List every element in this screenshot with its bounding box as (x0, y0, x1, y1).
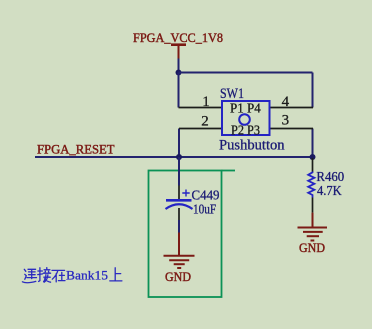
wire FPGA_RESET horizontal (35, 156, 313, 158)
annotation chinese 上 (110, 268, 122, 281)
svg-text:3: 3 (282, 112, 290, 128)
wire pin3 down to reset net (312, 129, 314, 158)
svg-text:1: 1 (202, 94, 210, 110)
svg-text:4: 4 (282, 94, 290, 110)
svg-text:2: 2 (201, 114, 209, 130)
wire pin2 down to reset net (178, 129, 180, 158)
svg-text:R460: R460 (316, 169, 344, 184)
svg-text:FPGA_VCC_1V8: FPGA_VCC_1V8 (133, 30, 223, 45)
wire power stem to junction (178, 59, 180, 73)
switch SW1 body (222, 101, 270, 135)
switch SW1 pins (179, 108, 314, 129)
annotation chinese 在 (52, 270, 65, 282)
wire left vertical to pin1 (178, 73, 180, 108)
annotation chinese 连 (22, 269, 36, 282)
svg-text:GND: GND (165, 269, 191, 284)
ground port left (164, 233, 195, 269)
annotation chinese 接 (38, 268, 51, 283)
svg-text:GND: GND (299, 240, 325, 255)
junction node C (310, 154, 316, 160)
wire reset net down to capacitor (178, 157, 180, 186)
svg-text:SW1: SW1 (220, 86, 244, 102)
junction node A (176, 70, 182, 76)
svg-text:P1 P4: P1 P4 (230, 101, 261, 116)
wire top horizontal (179, 72, 313, 74)
ground port right (298, 213, 328, 241)
svg-text:FPGA_RESET: FPGA_RESET (37, 141, 115, 156)
resistor R460 body (308, 172, 314, 198)
power port FPGA_VCC_1V8 (171, 45, 186, 59)
resistor R460 pins (312, 158, 314, 213)
svg-text:4.7K: 4.7K (317, 183, 342, 198)
green region outline (149, 171, 236, 298)
junction node B (176, 154, 182, 160)
wire capacitor to gnd port (178, 220, 180, 233)
svg-text:10uF: 10uF (193, 201, 216, 216)
wire right vertical to pin4 (312, 73, 314, 108)
svg-text:Pushbutton: Pushbutton (219, 137, 285, 153)
svg-text:P2 P3: P2 P3 (231, 122, 260, 137)
capacitor C449 body (166, 190, 193, 210)
capacitor C449 pins (178, 186, 180, 221)
svg-text:Bank15: Bank15 (66, 268, 108, 283)
